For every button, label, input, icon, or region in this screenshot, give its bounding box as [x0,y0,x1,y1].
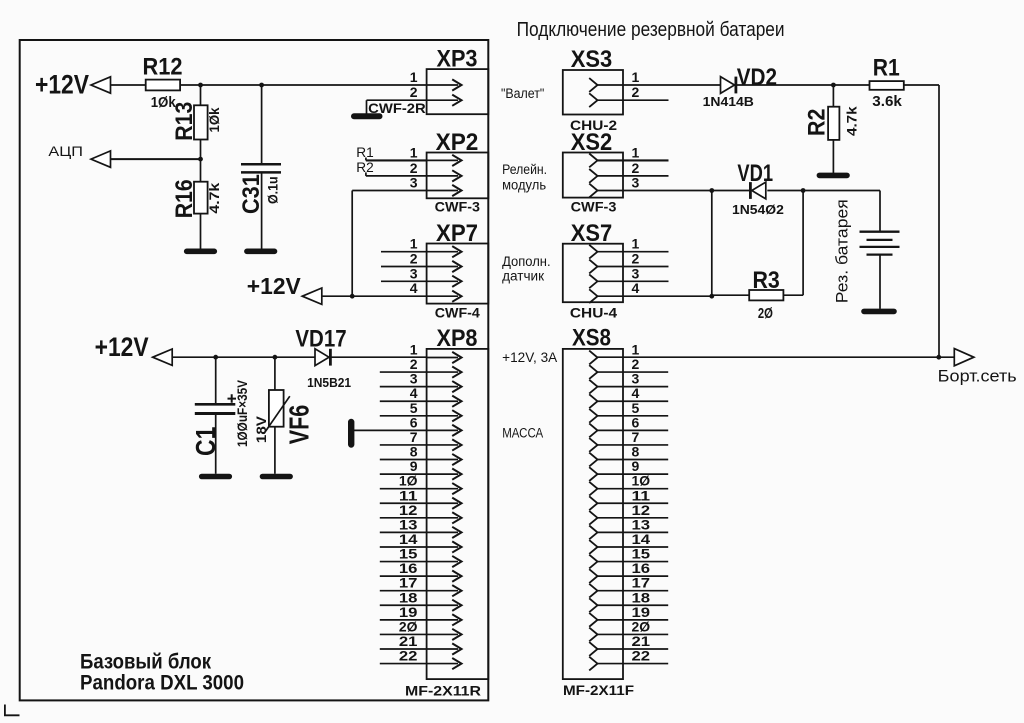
svg-text:МАССА: МАССА [502,425,543,440]
wire node to R16 [200,159,202,182]
svg-text:4.7k: 4.7k [207,182,222,213]
wire XP8 pin6 [353,429,427,431]
junction R13 top [198,83,203,88]
resistor R12 [143,54,183,111]
svg-text:1: 1 [632,144,640,160]
label CWF-2R [368,100,426,116]
junction АЦП [198,157,203,162]
text Базовый блок [80,650,211,673]
wire tag R1 (XP2 pin1) [356,144,426,160]
svg-text:3.6k: 3.6k [872,94,903,110]
connector XS7 [563,220,669,321]
wire R16 to ground [200,214,202,250]
wire XS2 pin3 to VD1 [598,190,751,192]
svg-text:CHU-4: CHU-4 [570,305,617,321]
svg-text:1ØØuF×35V: 1ØØuF×35V [235,380,250,447]
svg-text:CWF-3: CWF-3 [571,198,617,214]
svg-text:1Øk: 1Øk [207,107,222,132]
svg-text:XP7: XP7 [436,220,478,247]
wire VD17 to XP8 pin1 [330,356,426,358]
label МАССА [502,425,543,440]
svg-text:Базовый блок: Базовый блок [80,650,211,673]
node +12V bottom [95,332,173,365]
svg-text:XS8: XS8 [572,325,611,352]
svg-text:3: 3 [632,175,640,191]
connector XP3 [410,46,489,115]
wire R13 to node АЦП [200,140,202,160]
svg-text:VD17: VD17 [295,325,346,352]
diode VD1 [732,160,784,217]
svg-text:VD1: VD1 [737,160,773,187]
resistor R13 [171,102,222,141]
svg-text:датчик: датчик [502,269,544,284]
svg-text:2: 2 [632,251,640,267]
label +12V, 3A [502,350,557,365]
ground below R2 [819,173,847,179]
svg-text:Pandora DXL 3000: Pandora DXL 3000 [80,672,244,695]
wire tag R2 (XP2 pin2) [356,159,426,176]
battery Рез. батарея [833,199,900,303]
node +12V middle [247,273,427,305]
resistor R2 [804,106,860,140]
title Подключение резервной батареи [517,19,785,41]
svg-text:3: 3 [410,265,418,281]
chassis bar XP3 pin2 [354,113,380,119]
label Валет [501,86,544,101]
capacitor C31 [238,164,281,214]
svg-text:2: 2 [632,84,640,100]
svg-text:1: 1 [410,144,418,160]
junction Борт.сеть [936,355,941,360]
node +12V top [35,69,111,99]
node Борт.сеть [938,349,1017,386]
svg-text:1: 1 [632,236,640,252]
svg-text:Дополн.: Дополн. [502,254,550,269]
svg-text:+12V: +12V [95,332,149,362]
svg-text:1N5B21: 1N5B21 [307,375,351,390]
corner mark [5,705,20,716]
svg-text:MF-2X11F: MF-2X11F [563,682,634,698]
wire C31 top [261,85,263,164]
svg-text:Ø.1u: Ø.1u [266,176,281,204]
svg-text:1N54Ø2: 1N54Ø2 [732,202,784,217]
connector XP8 [380,325,489,699]
svg-text:22: 22 [399,648,418,664]
svg-text:Релейн.: Релейн. [502,162,547,177]
wire +12V to R12 [111,84,146,86]
svg-text:VD2: VD2 [737,64,777,91]
svg-text:R1: R1 [873,54,900,81]
svg-text:+12V, 3A: +12V, 3A [502,350,557,365]
wire VF6 top [274,357,276,390]
svg-text:4.7k: 4.7k [845,106,860,136]
svg-text:1N414B: 1N414B [703,94,754,109]
wire XP3 pin2 hook [367,100,427,114]
svg-text:2Ø: 2Ø [758,306,773,322]
svg-text:R3: R3 [752,267,779,294]
svg-text:"Валет": "Валет" [501,86,544,101]
junction C31 top [259,83,264,88]
connector XS3 [563,46,669,133]
wire R2 to ground [832,140,834,173]
svg-text:XS7: XS7 [571,220,613,247]
svg-text:R13: R13 [171,102,198,141]
junction +12V middle [350,294,355,299]
node АЦП [48,143,200,167]
wire VD2 to R1 [736,84,870,86]
wire VD1 to battery corner [767,191,880,232]
block outline Базовый блок [20,40,489,700]
ground below battery [864,309,894,315]
wire XS3 pin1 to VD2 [598,84,722,86]
text Pandora DXL 3000 [80,672,244,695]
label Дополн. датчик [502,254,550,284]
svg-text:VF6: VF6 [284,405,315,445]
svg-text:XP3: XP3 [437,46,478,73]
ground below C31 [247,249,275,255]
svg-text:3: 3 [632,265,640,281]
svg-text:XS3: XS3 [571,46,613,73]
wire battery to ground [879,255,881,309]
svg-text:Борт.сеть: Борт.сеть [938,366,1017,385]
svg-text:4: 4 [632,280,640,296]
junction R2 top [831,83,836,88]
svg-text:XP8: XP8 [437,325,478,352]
junction VD1 right [801,188,806,193]
svg-text:2: 2 [632,160,640,176]
label Релейн. модуль [502,162,547,193]
svg-text:1: 1 [410,236,418,252]
svg-text:+12V: +12V [247,273,302,299]
wire XP2 pin3 down [352,191,426,297]
wire C31 to ground [261,172,263,249]
varistor VF6 [254,390,315,444]
diode VD2 [703,64,777,109]
wire R1 to corner down [904,85,939,357]
ground below C1 [202,474,230,480]
junction C1 [213,355,218,360]
svg-text:XP2: XP2 [436,129,479,156]
svg-text:CWF-4: CWF-4 [435,304,480,320]
capacitor C1 [190,380,250,456]
svg-text:2: 2 [410,251,418,267]
diode VD17 [295,325,351,390]
svg-text:АЦП: АЦП [48,143,83,159]
svg-text:2: 2 [410,160,418,176]
wire C1 to ground [215,414,217,474]
svg-text:R2: R2 [804,109,831,136]
wire C1 top [215,357,217,403]
resistor R3 [749,267,783,322]
svg-text:2: 2 [410,84,418,100]
wire VF6 to ground [274,427,276,474]
connector XS2 [563,129,669,214]
junction VD1 left [709,188,714,193]
svg-text:XS2: XS2 [571,129,613,156]
wire R12 to XP3 pin1 [180,84,427,86]
ground below R16 [187,249,215,255]
junction VF6 [273,355,278,360]
svg-text:+12V: +12V [35,69,89,99]
svg-text:3: 3 [410,175,418,191]
svg-text:R16: R16 [171,179,198,218]
svg-text:1: 1 [410,69,418,85]
ground below VF6 [263,474,291,480]
svg-text:Подключение резервной батареи: Подключение резервной батареи [517,19,785,41]
wire R2 top [832,85,834,107]
svg-text:4: 4 [410,280,418,296]
junction R3 left [709,294,714,299]
svg-text:MF-2X11R: MF-2X11R [405,683,481,699]
chassis bar XP8 pin6 [348,422,354,445]
svg-text:Рез. батарея: Рез. батарея [833,199,852,303]
wire R3 to VD1 right [783,191,803,296]
svg-text:модуль: модуль [502,178,546,193]
wire XS8 pin1 to Борт.сеть [598,356,955,358]
connector XP7 [381,220,488,320]
wire rail to R13 [200,85,202,105]
svg-text:22: 22 [632,648,651,664]
wire XS7 pin4 to R3 [598,191,750,297]
resistor R1 [870,54,904,110]
svg-text:CWF-3: CWF-3 [435,198,481,214]
wire +12V to VD17 [172,356,315,358]
svg-text:18V: 18V [254,416,269,443]
connector XS8 [563,325,668,699]
connector XP2 [410,129,489,214]
resistor R16 [171,179,222,218]
svg-text:R12: R12 [143,54,183,81]
svg-text:1: 1 [632,69,640,85]
